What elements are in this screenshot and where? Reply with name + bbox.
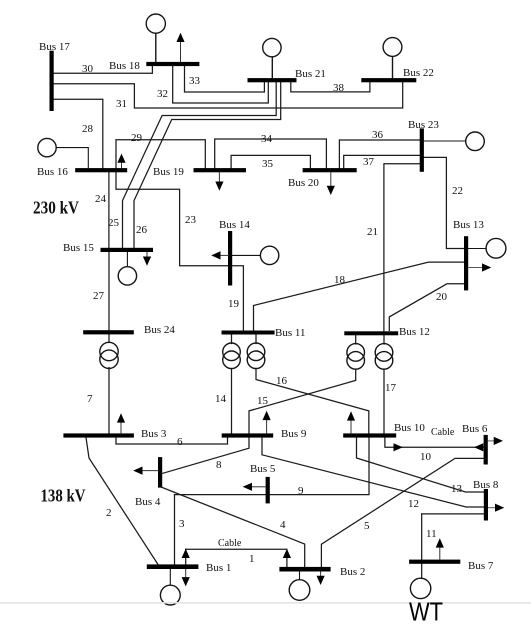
bus 21 bar	[248, 78, 297, 82]
svg-text:26: 26	[136, 224, 148, 236]
wire line 28 Bus16-Bus17	[52, 99, 103, 168]
wire line 17 Bus12-Bus10 upper stem	[383, 334, 385, 344]
svg-text:Bus 21: Bus 21	[295, 68, 326, 80]
wire line 13 Bus8-Bus10	[357, 438, 485, 493]
bus 12 bar	[344, 331, 398, 335]
bus 4 bar	[158, 457, 162, 488]
svg-text:22: 22	[452, 185, 463, 197]
bus 16 bar	[75, 168, 127, 172]
wire line 30 Bus17-Bus18	[52, 65, 153, 74]
wire line 1 stem at Bus1	[185, 549, 187, 565]
transformer T16 on line 16	[247, 343, 265, 369]
svg-text:23: 23	[185, 214, 197, 226]
wire line 17 Bus12-Bus10 lower stem	[383, 369, 385, 434]
svg-text:Bus 17: Bus 17	[39, 41, 70, 53]
svg-text:Bus 7: Bus 7	[468, 560, 494, 572]
svg-text:30: 30	[82, 63, 94, 75]
wire line 29 Bus16-Bus19	[116, 140, 205, 169]
bus 24 bar	[83, 330, 134, 334]
svg-text:230 kV: 230 kV	[33, 198, 79, 218]
wire line 16 Bus11-Bus10 lower path	[256, 369, 369, 434]
wire line 14 Bus11-Bus9 lower stem	[231, 369, 233, 434]
wire line 15 Bus12-Bus9 upper stem	[355, 334, 357, 344]
transformer T7 on line 7	[100, 342, 118, 368]
svg-text:3: 3	[179, 518, 185, 530]
bus 10 bar	[343, 433, 396, 437]
bus 11 bar	[222, 331, 275, 335]
wire line 1 cable Bus1-Bus2	[186, 548, 287, 550]
load arrow up at bus 18	[176, 33, 184, 62]
svg-text:Bus 14: Bus 14	[219, 219, 250, 231]
wire line 7 Bus24-Bus3 lower stem	[108, 368, 110, 434]
bus 20 bar	[303, 168, 357, 172]
load arrow up at bus 3	[117, 413, 125, 433]
wire line 5 Bus2-Bus6	[321, 458, 484, 567]
svg-text:14: 14	[215, 393, 227, 405]
svg-text:2: 2	[106, 507, 112, 519]
svg-text:9: 9	[298, 485, 304, 497]
wire line 22 Bus13-Bus23	[424, 157, 465, 248]
bus 15 bar	[101, 248, 154, 252]
wire line 37 Bus20-Bus23	[344, 155, 421, 168]
svg-text:37: 37	[363, 156, 375, 168]
load arrow up at bus 7	[436, 538, 444, 559]
wire line 25 Bus15-Bus21	[123, 82, 277, 249]
svg-text:Bus 23: Bus 23	[408, 119, 439, 131]
cable 10 arrow left near bus 6	[474, 443, 483, 451]
load arrow left at bus 4	[133, 467, 158, 475]
bus 19 bar	[194, 168, 247, 172]
bus 22 bar	[361, 78, 416, 82]
svg-text:25: 25	[108, 217, 120, 229]
wire line 32 Bus18-Bus21	[173, 66, 269, 104]
svg-text:138 kV: 138 kV	[41, 485, 86, 505]
svg-text:Bus 4: Bus 4	[135, 496, 161, 508]
generator WT at bus 7	[410, 578, 430, 598]
svg-text:10: 10	[420, 451, 432, 463]
svg-text:Bus 5: Bus 5	[250, 463, 276, 475]
load arrow up at bus 16	[117, 154, 125, 169]
svg-text:18: 18	[334, 274, 346, 286]
wire line 20 Bus12-Bus13	[389, 284, 464, 331]
svg-text:Bus 19: Bus 19	[153, 166, 184, 178]
cable 10 arrow right near bus 10	[394, 443, 403, 451]
svg-text:Bus 22: Bus 22	[403, 67, 434, 79]
wire line 8 Bus4-Bus9	[162, 438, 249, 474]
svg-text:1: 1	[249, 553, 255, 565]
svg-text:Bus 10: Bus 10	[394, 422, 425, 434]
wire line 4 Bus2-Bus4	[161, 487, 305, 568]
generator at bus 18	[146, 14, 165, 62]
generator at bus 22	[383, 38, 402, 79]
svg-text:7: 7	[87, 393, 93, 405]
svg-text:Bus 15: Bus 15	[63, 242, 94, 254]
load arrow down below bus 1	[182, 569, 190, 586]
transformer T17 on line 17	[375, 344, 393, 370]
svg-text:Bus 11: Bus 11	[275, 327, 305, 339]
svg-text:8: 8	[216, 459, 222, 471]
svg-text:6: 6	[177, 436, 183, 448]
bus 2 bar	[279, 567, 330, 572]
svg-text:16: 16	[276, 375, 288, 387]
svg-text:Bus 13: Bus 13	[453, 219, 484, 231]
load arrow down at bus 2	[317, 572, 325, 586]
bus 17 bar	[50, 51, 54, 111]
wire line 6 Bus3-Bus9	[116, 438, 228, 445]
load arrow left at bus 5	[243, 483, 266, 491]
wire line 2 Bus1-Bus3	[86, 438, 158, 565]
svg-text:11: 11	[426, 528, 437, 540]
wire line 10 cable Bus10-Bus6	[385, 438, 484, 448]
wire line 7 Bus24-Bus3 upper stem	[108, 252, 110, 343]
bus 23 bar	[420, 128, 424, 171]
svg-text:Bus 20: Bus 20	[288, 177, 319, 189]
transformer T15 on line 15	[347, 344, 365, 370]
bus 7 bar	[409, 560, 460, 564]
load arrow right at bus 8	[488, 504, 504, 512]
wire line 3 Bus1-Bus5	[174, 495, 176, 565]
wire line 24 Bus15-Bus16	[108, 172, 110, 249]
svg-text:33: 33	[189, 75, 201, 87]
svg-text:20: 20	[436, 291, 448, 303]
svg-text:19: 19	[228, 298, 240, 310]
wire line 34 Bus19-Bus20	[215, 139, 327, 169]
load arrow left at bus 14	[211, 251, 229, 259]
wire line 9 Bus5-Bus10	[175, 438, 370, 495]
svg-text:28: 28	[82, 123, 94, 135]
bus 13 bar	[464, 236, 468, 290]
svg-text:Bus 12: Bus 12	[399, 326, 430, 338]
svg-text:38: 38	[333, 82, 345, 94]
bus 18 bar	[146, 62, 199, 66]
load arrow down at bus 20	[327, 172, 335, 195]
wire line 36 Bus20-Bus23	[339, 140, 420, 169]
svg-text:34: 34	[261, 133, 273, 145]
svg-text:27: 27	[93, 290, 105, 302]
generator at bus 1	[160, 569, 180, 605]
generator at bus 16	[38, 138, 89, 168]
transformer T14 on line 14	[223, 343, 241, 369]
svg-text:WT: WT	[409, 597, 443, 627]
wire line 33 Bus18-Bus21	[185, 66, 265, 93]
svg-text:36: 36	[372, 129, 384, 141]
load arrow right at bus 13	[468, 263, 491, 271]
bus 5 bar	[266, 477, 270, 504]
svg-text:12: 12	[408, 498, 419, 510]
svg-text:4: 4	[280, 519, 286, 531]
generator at bus 23	[424, 132, 485, 151]
bus 1 bar	[147, 564, 199, 569]
svg-text:Bus 16: Bus 16	[37, 166, 68, 178]
cable 1 arrow up at bus 1	[182, 549, 190, 558]
svg-text:31: 31	[116, 98, 127, 110]
generator at bus 14	[232, 246, 279, 264]
svg-text:21: 21	[367, 226, 378, 238]
bus 3 bar	[63, 433, 133, 437]
svg-text:35: 35	[262, 158, 274, 170]
svg-text:15: 15	[257, 395, 269, 407]
svg-text:29: 29	[131, 132, 143, 144]
load arrow down at bus 19	[215, 172, 223, 191]
svg-text:Cable: Cable	[431, 427, 455, 438]
wire line 38 Bus21-Bus22	[291, 82, 370, 92]
load arrow up at bus 9	[263, 411, 271, 434]
generator at bus 13	[468, 238, 506, 258]
wire line 18 Bus11-Bus13	[254, 262, 465, 330]
load arrow right at bus 6	[488, 437, 503, 445]
bus 14 bar	[228, 231, 232, 286]
svg-text:13: 13	[451, 483, 463, 495]
wire line 14 Bus11-Bus9 upper stem	[231, 334, 233, 344]
svg-text:Bus 2: Bus 2	[340, 566, 365, 578]
svg-text:32: 32	[157, 88, 168, 100]
wire line 16 Bus11-Bus10 upper stem	[255, 334, 257, 344]
wire line 19 Bus11-Bus14	[231, 266, 243, 331]
cable 1 arrow up at bus 2	[283, 549, 291, 558]
faint scan line	[0, 602, 531, 604]
bus 6 bar	[484, 435, 488, 465]
load arrow up at bus 10	[347, 411, 355, 433]
bus 8 bar	[484, 489, 488, 521]
wire line 11 Bus7-Bus8	[422, 513, 484, 515]
wire line 31 Bus17-Bus22	[52, 82, 403, 109]
svg-text:Bus 8: Bus 8	[473, 479, 499, 491]
generator at bus 15	[118, 252, 136, 285]
bus 9 bar	[222, 433, 274, 437]
wire line 35 Bus19-Bus20	[231, 155, 310, 168]
wire line 12 Bus8-Bus9	[262, 438, 484, 508]
svg-text:Bus 1: Bus 1	[206, 562, 231, 574]
wire line 11 vertical at Bus7	[421, 514, 423, 579]
svg-text:24: 24	[95, 193, 107, 205]
svg-text:Bus 18: Bus 18	[109, 60, 140, 72]
svg-text:Bus 9: Bus 9	[281, 428, 307, 440]
svg-text:5: 5	[364, 520, 370, 532]
wire line 21 Bus12-Bus23	[384, 164, 421, 331]
generator at bus 21	[263, 38, 281, 78]
wire line 23 Bus14-Bus16	[116, 171, 229, 266]
load arrow down at bus 15	[143, 252, 151, 266]
generator at bus 2	[289, 572, 310, 601]
svg-text:Bus 24: Bus 24	[144, 324, 175, 336]
svg-text:Cable: Cable	[218, 538, 242, 549]
wire line 1 stem at Bus2	[286, 556, 288, 568]
svg-text:Bus 6: Bus 6	[462, 423, 488, 435]
wire line 26 Bus15-Bus21	[134, 82, 281, 249]
svg-text:17: 17	[385, 382, 397, 394]
wire line 15 Bus12-Bus9 lower path	[249, 369, 356, 434]
svg-text:Bus 3: Bus 3	[141, 428, 167, 440]
